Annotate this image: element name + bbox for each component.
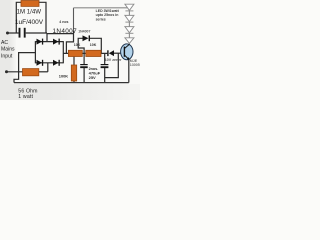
terminal dot bottom (5, 70, 8, 73)
svg-text:1 watt: 1 watt (18, 94, 33, 100)
wire bottom rail (14, 82, 129, 84)
LED 1 (125, 4, 134, 10)
wire J1 riser to diode line (78, 38, 84, 53)
wire bridge right edge (62, 41, 64, 63)
wire riser upper part gray (73, 8, 75, 31)
diode D4 (53, 60, 60, 66)
wire cap2 top lead (104, 53, 106, 64)
wire diode line right corner (90, 38, 101, 53)
wire 56ohm to bridge (39, 71, 48, 73)
svg-text:13005: 13005 (130, 63, 140, 67)
svg-text:10V zener: 10V zener (105, 58, 122, 62)
wire bridge top row (35, 41, 63, 43)
LED 4 (125, 38, 134, 44)
wire emitter drop (128, 60, 130, 83)
LED 3 (125, 27, 134, 33)
wire bridge left edge (34, 41, 36, 63)
wire bottom AC line (7, 71, 24, 73)
svg-text:Input: Input (1, 53, 13, 59)
background (0, 0, 140, 100)
svg-text:100K: 100K (59, 73, 68, 78)
svg-text:10K: 10K (90, 43, 97, 47)
wire top rail gray (74, 8, 130, 44)
wire cap2 bottom lead (104, 68, 106, 83)
wire main base line (63, 52, 107, 54)
svg-text:1N4007: 1N4007 (53, 28, 78, 35)
wire 100K top lead (73, 57, 75, 66)
svg-text:4 nos: 4 nos (59, 20, 68, 24)
diode D5 series 1N4007 (83, 35, 91, 41)
capacitor 470uF C2 (101, 65, 109, 68)
svg-text:Mains: Mains (1, 47, 15, 53)
wire bridge bottom row (35, 62, 63, 64)
wire 1M loop top (16, 2, 46, 33)
wire 100K bottom lead (73, 81, 75, 83)
wire zener to base (114, 52, 124, 54)
wire AC top line (8, 32, 19, 34)
LED string (125, 4, 134, 43)
LED 2 (125, 15, 134, 21)
wire plus rail riser jog (66, 30, 73, 53)
resistor 1M (21, 1, 39, 7)
transistor MJE13005 (121, 44, 133, 60)
zener diode 10V (107, 50, 114, 56)
svg-text:1M 1/4W: 1M 1/4W (17, 8, 42, 15)
wire zener node drop (105, 53, 119, 77)
capacitor 470uF C1 (80, 65, 88, 68)
resistor 10K second (86, 50, 101, 56)
diode D1 (37, 39, 44, 45)
resistor 10K first (68, 50, 82, 56)
wire cap junction right stub (47, 33, 74, 35)
terminal dot top (6, 32, 9, 35)
resistor 100K vertical (71, 65, 76, 81)
wire cap1 top lead (83, 53, 85, 64)
svg-text:1uF/400V: 1uF/400V (15, 19, 44, 26)
svg-text:AC: AC (1, 40, 8, 46)
wire bridge top mid drop (46, 33, 48, 42)
svg-text:series: series (96, 17, 106, 21)
resistor 56 Ohm (23, 69, 39, 76)
svg-text:25V: 25V (89, 75, 96, 80)
diode D2 (53, 39, 60, 45)
wire cap to bridge (26, 32, 47, 34)
svg-text:1N4007: 1N4007 (78, 30, 90, 34)
svg-text:10K: 10K (74, 43, 81, 47)
wire cap1 bottom lead (83, 68, 85, 83)
wire bridge bottom mid drop (47, 63, 49, 72)
capacitor 1uF/400V (20, 28, 25, 38)
diode D3 (37, 60, 44, 66)
wire AC neutral left jog (14, 53, 35, 83)
